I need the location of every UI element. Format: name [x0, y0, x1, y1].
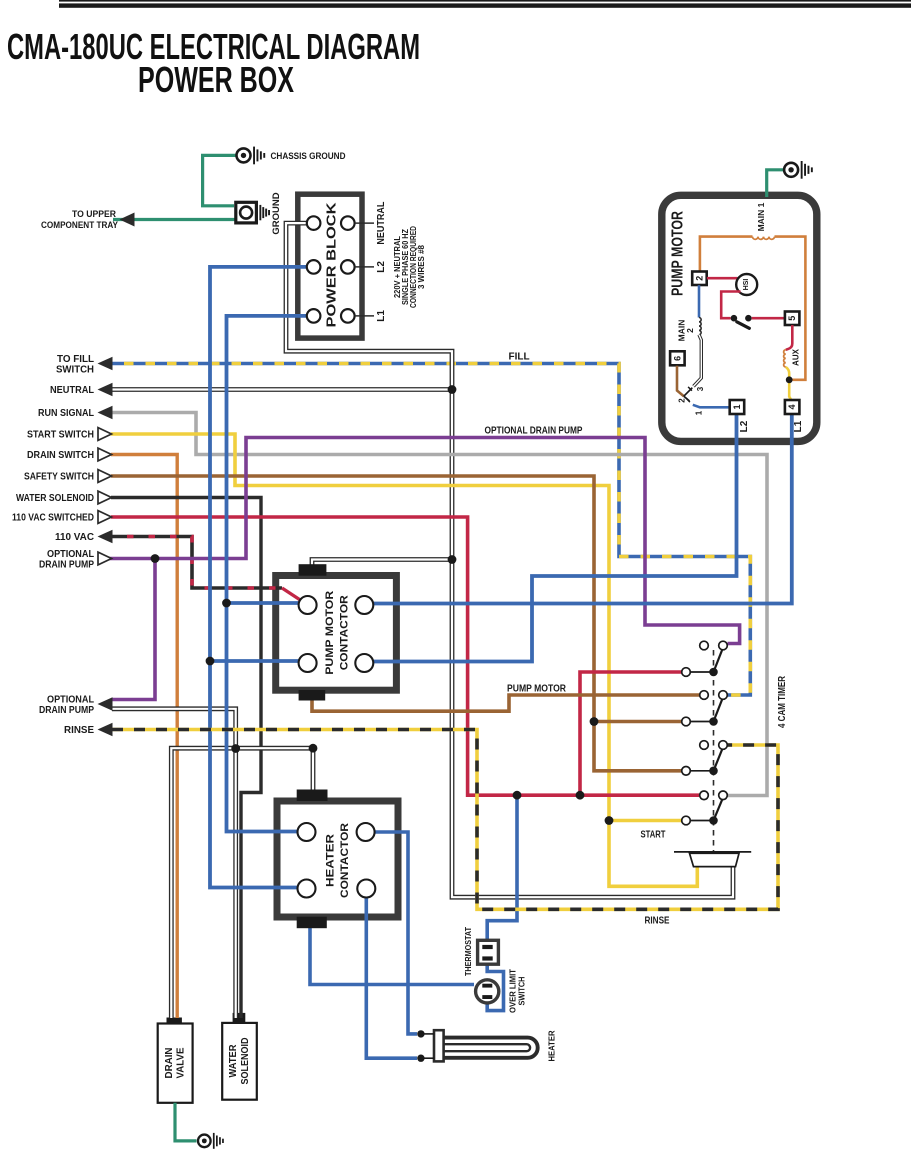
svg-text:HSI: HSI — [743, 279, 750, 291]
timer motor — [674, 852, 751, 867]
svg-text:5: 5 — [787, 316, 797, 321]
label OPTIONAL DRAIN PUMP wire — [485, 426, 583, 437]
svg-text:NEUTRAL: NEUTRAL — [50, 385, 94, 396]
svg-text:THERMOSTAT: THERMOSTAT — [463, 926, 473, 976]
wire drain valve ground (green) — [175, 1103, 197, 1141]
svg-text:HEATER: HEATER — [547, 1031, 557, 1062]
svg-text:OPTIONAL: OPTIONAL — [47, 694, 94, 705]
label AUX — [791, 348, 800, 366]
wire pump motor frame ground (green) — [767, 170, 784, 197]
power block terminals and labels — [307, 202, 374, 328]
svg-text:WATER: WATER — [228, 1044, 239, 1078]
wire chassis ground (green) upper left — [203, 155, 237, 205]
svg-text:POWER BLOCK: POWER BLOCK — [323, 202, 338, 328]
wire MAIN 2 winding to selector contact 3 (white) — [694, 335, 702, 387]
junction L1 blue feed — [222, 599, 231, 608]
chassis ground symbol upper left — [237, 147, 266, 165]
svg-text:SWITCH: SWITCH — [517, 977, 527, 1006]
wire neutral net (white) power block to timer motor — [286, 223, 733, 897]
power block TB1 body — [298, 194, 362, 338]
wire neutral (white) to neutral arrow — [112, 387, 452, 392]
svg-text:DRAIN PUMP: DRAIN PUMP — [39, 705, 94, 716]
junction white wire heater coil — [309, 744, 318, 753]
svg-text:1: 1 — [695, 410, 704, 415]
port TO FILL SWITCH — [56, 354, 113, 376]
label RINSE wire — [645, 916, 670, 927]
wire safety switch (brown) to timer switches 2 and 3 common — [111, 476, 682, 771]
label PUMP MOTOR wire — [507, 684, 567, 695]
winding AUX coil — [784, 350, 786, 367]
svg-text:CONTACTOR: CONTACTOR — [339, 823, 351, 898]
pump motor contactor K1 body — [276, 576, 397, 691]
svg-text:START SWITCH: START SWITCH — [27, 430, 94, 441]
wire thermal protector to centrifugal switch (red) — [721, 292, 740, 319]
wire terminal 6 to selector hub (brown) — [677, 366, 684, 396]
svg-text:PUMP MOTOR: PUMP MOTOR — [669, 211, 686, 296]
heater element — [417, 1030, 538, 1062]
svg-text:WATER SOLENOID: WATER SOLENOID — [16, 493, 94, 504]
svg-text:2: 2 — [694, 276, 704, 281]
svg-text:CHASSIS GROUND: CHASSIS GROUND — [271, 151, 346, 162]
wire pump contactor to motor terminal 1 L2 (blue) — [372, 414, 737, 662]
wire terminal 2 to thermal protector (red) — [707, 277, 738, 280]
svg-text:SOLENOID: SOLENOID — [240, 1038, 251, 1085]
svg-text:L2: L2 — [376, 261, 387, 273]
wire heater contactor to heater terminal B (blue) — [366, 897, 417, 1058]
svg-text:110 VAC SWITCHED: 110 VAC SWITCHED — [12, 513, 94, 524]
svg-text:DRAIN PUMP: DRAIN PUMP — [39, 559, 94, 570]
svg-text:4: 4 — [787, 404, 797, 409]
svg-text:PUMP MOTOR: PUMP MOTOR — [324, 591, 336, 675]
thermostat — [478, 940, 499, 964]
wire ground to upper component tray (green) — [113, 218, 235, 221]
label MAIN 2 — [677, 320, 696, 342]
port RUN SIGNAL — [38, 406, 113, 420]
junction neutral at power block drop — [448, 385, 457, 394]
svg-text:COMPONENT TRAY: COMPONENT TRAY — [41, 220, 119, 231]
ground terminal lug — [236, 202, 270, 223]
svg-text:SWITCH: SWITCH — [56, 364, 94, 375]
label GROUND — [271, 192, 282, 234]
svg-text:FILL: FILL — [509, 352, 530, 363]
label START — [641, 830, 666, 841]
wire L2 feed (blue) power block to contactors — [210, 267, 314, 888]
port START SWITCH — [27, 428, 112, 441]
wire 110 VAC switched (crimson) to timer switch 4 NC — [111, 517, 699, 795]
svg-text:GROUND: GROUND — [271, 192, 282, 234]
wire water solenoid (black) label to solenoid — [111, 498, 261, 1019]
wire neutral branch (white) to pump motor contactor coil tab — [312, 560, 452, 571]
heater contactor K2 body — [277, 801, 398, 917]
timer cam switch 1 — [682, 641, 728, 676]
port RINSE — [64, 723, 113, 737]
svg-text:MAIN 1: MAIN 1 — [756, 202, 766, 231]
label 4 CAM TIMER — [777, 675, 788, 728]
label OVER LIMIT SWITCH — [508, 968, 527, 1013]
label L2 motor lead — [739, 420, 750, 432]
winding MAIN 2 coil — [699, 318, 701, 335]
svg-text:L1: L1 — [376, 310, 387, 322]
wire fill net (blue/yellow dashed) to fill switch — [112, 364, 750, 696]
label FILL wire — [509, 352, 530, 363]
wire terminal 5 to AUX winding (red) — [786, 325, 793, 350]
svg-text:1: 1 — [732, 404, 742, 409]
svg-text:4 CAM TIMER: 4 CAM TIMER — [777, 675, 788, 728]
timer cam switch 3 — [682, 741, 728, 775]
pump motor M1 enclosure — [662, 195, 817, 441]
pump motor contactor K1 coil tabs and terminals — [299, 564, 374, 700]
junction 110 VAC switched to switch 1 — [576, 791, 585, 800]
svg-text:DRAIN SWITCH: DRAIN SWITCH — [27, 450, 94, 461]
svg-text:TO UPPER: TO UPPER — [72, 209, 116, 220]
winding MAIN 1 (orange loop with coil) — [700, 237, 806, 380]
over limit switch — [476, 980, 499, 1003]
wire optional drain pump return branch (purple) — [112, 559, 155, 700]
wire AUX winding to terminal 4 (yellow) — [786, 367, 792, 401]
svg-text:CONTACTOR: CONTACTOR — [339, 595, 351, 670]
thermal protector HSI — [736, 274, 757, 295]
drain valve body — [158, 1018, 193, 1103]
motor terminal 4 (L1) — [785, 400, 800, 414]
label NEUTRAL terminal — [376, 202, 387, 245]
wire 110 VAC switched branch (crimson) to timer switch 1 common — [580, 672, 682, 795]
junction 110 VAC switched to thermostat — [513, 791, 522, 800]
svg-text:RUN SIGNAL: RUN SIGNAL — [38, 408, 94, 419]
motor terminal 1 (L2) — [730, 400, 745, 414]
heater contactor K2 coil tabs and terminals — [297, 790, 376, 929]
timer cam switch 2 — [682, 691, 728, 726]
wire optional drain pump (purple) to timer switch 1 NO — [106, 438, 740, 644]
label THERMOSTAT — [463, 926, 473, 976]
label L1 terminal — [376, 310, 387, 322]
wire rinse net (yellow/black dashed) — [112, 730, 778, 910]
wire 110 VAC (black/red dashed) to pump motor contactor — [112, 537, 301, 601]
svg-text:OPTIONAL DRAIN PUMP: OPTIONAL DRAIN PUMP — [485, 426, 583, 437]
wire heater contactor to heater terminal A (blue) — [374, 832, 417, 1034]
svg-text:AUX: AUX — [791, 348, 800, 366]
svg-text:RINSE: RINSE — [64, 725, 94, 736]
port NEUTRAL — [50, 383, 113, 397]
svg-text:2: 2 — [677, 398, 686, 403]
svg-text:TO FILL: TO FILL — [57, 354, 94, 365]
water solenoid body — [222, 1013, 257, 1100]
label CHASSIS GROUND — [271, 151, 346, 162]
arrow to upper component tray — [41, 209, 135, 231]
wire centrifugal switch to terminal 5 (red) — [752, 317, 785, 320]
label MAIN 1 — [756, 202, 766, 231]
port SAFETY SWITCH — [24, 470, 112, 483]
wire pump motor lead (brown) contactor to timer switch 2 NC — [312, 694, 700, 711]
svg-text:6: 6 — [672, 356, 682, 361]
wire terminal 2 to MAIN 2 winding (blue) — [698, 285, 701, 317]
chassis ground symbol drain valve — [198, 1133, 224, 1149]
svg-text:VALVE: VALVE — [176, 1047, 187, 1078]
motor terminal 5 — [785, 312, 800, 326]
speed selector switch contacts 1 2 3 — [677, 386, 705, 415]
wire thermostat to over limit switch (blue) — [487, 962, 503, 1011]
port 110 VAC SWITCHED — [12, 511, 112, 524]
port OPTIONAL DRAIN PUMP out — [39, 549, 112, 571]
port WATER SOLENOID — [16, 491, 112, 504]
junction start yellow — [605, 816, 614, 825]
cam shaft dashed line — [713, 650, 715, 851]
motor terminal 6 — [670, 351, 685, 365]
svg-text:OPTIONAL: OPTIONAL — [47, 549, 94, 560]
svg-text:PUMP MOTOR: PUMP MOTOR — [507, 684, 567, 695]
wire L1 feed (blue) power block to contactors — [227, 316, 314, 832]
label L1 motor lead — [793, 420, 804, 432]
subtitle POWER BOX — [138, 59, 294, 100]
port 110 VAC — [55, 530, 113, 544]
junction AUX / MAIN1 node — [786, 376, 793, 383]
junction white wire water solenoid — [231, 744, 240, 753]
note 220V single phase connection — [393, 226, 426, 308]
svg-text:2: 2 — [685, 328, 695, 333]
svg-text:3: 3 — [696, 386, 705, 391]
label L2 terminal — [376, 261, 387, 273]
junction neutral at contactor coil — [448, 555, 457, 564]
svg-text:RINSE: RINSE — [645, 916, 670, 927]
svg-text:NEUTRAL: NEUTRAL — [376, 202, 387, 245]
label WATER SOLENOID — [228, 1038, 251, 1085]
header rule (top double rule) — [59, 0, 911, 8]
svg-text:SAFETY SWITCH: SAFETY SWITCH — [24, 472, 94, 483]
wire selector contact 1 to terminal 1 (blue) — [693, 405, 730, 408]
wire start switch (yellow) to timer start contact and timer motor — [111, 434, 697, 886]
timer cam switch 4 — [682, 791, 728, 825]
centrifugal switch — [731, 315, 752, 328]
port DRAIN SWITCH — [27, 448, 112, 461]
junction optional drain pump — [151, 554, 160, 563]
svg-text:L2: L2 — [739, 420, 750, 432]
wire drain switch (orange) to drain valve — [111, 455, 177, 1019]
svg-text:HEATER: HEATER — [325, 834, 337, 887]
chassis ground symbol pump motor — [784, 161, 813, 179]
svg-text:L1: L1 — [793, 420, 804, 432]
svg-text:START: START — [641, 830, 666, 841]
label HEATER — [547, 1031, 557, 1062]
label DRAIN VALVE — [164, 1047, 187, 1078]
title CMA-180UC ELECTRICAL DIAGRAM — [7, 26, 420, 67]
junction L2 blue feed — [206, 657, 215, 666]
port OPTIONAL DRAIN PUMP return — [39, 694, 113, 716]
wire thermostat feed (blue) from 110 VAC switched junction — [487, 795, 517, 939]
svg-text:3 WIRES #8: 3 WIRES #8 — [417, 244, 426, 289]
wire optional drain pump (white) to water solenoid — [112, 709, 236, 1018]
junction safety switch brown — [590, 717, 599, 726]
wire branch (white) drain valve to heater contactor coil tab — [171, 748, 313, 1018]
svg-text:POWER BOX: POWER BOX — [138, 59, 294, 100]
wire run signal (gray) to 4-cam-timer switch 4 — [112, 413, 767, 796]
pump motor label — [669, 211, 686, 296]
svg-text:110 VAC: 110 VAC — [55, 532, 94, 543]
svg-text:DRAIN: DRAIN — [164, 1048, 175, 1079]
wire pump contactor to motor terminal 4 L1 (blue) — [372, 414, 792, 604]
motor terminal 2 — [692, 272, 707, 286]
wire heater contactor coil to over limit switch (blue) — [310, 924, 474, 985]
